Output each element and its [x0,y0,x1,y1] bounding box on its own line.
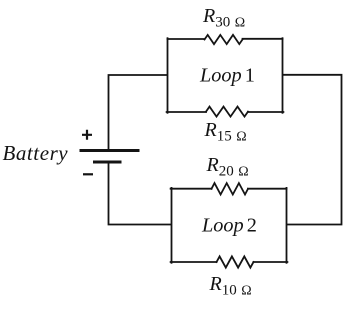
svg-text:R15Ω: R15Ω [204,119,247,145]
svg-text:Battery: Battery [3,141,69,165]
wire: Loop 2 top-left lead [171,188,212,190]
wire: Loop 2 bottom-left lead [171,261,217,263]
wire: Loop 1 left edge [167,38,169,113]
wire: Loop 2 right edge [286,188,288,263]
battery - polarity mark [83,173,93,175]
wire: battery + terminal up and right to Loop 1 left node [109,75,167,150]
wire: Loop 1 bottom-left lead [167,111,206,113]
wire: Loop 1 top-left lead [168,38,205,40]
wire: Loop 1 top-right lead [243,38,283,40]
svg-text:R30Ω: R30Ω [202,5,245,31]
battery + polarity mark [82,130,92,140]
resistor R4 (10 ohm) zigzag [217,256,254,267]
resistor R1 (30 ohm) zigzag [205,35,243,44]
battery B1 positive plate [80,149,140,152]
wire: battery - terminal down and right to Loop 2 left node [109,163,171,225]
wire: Loop 1 right node to outer right rail, down, to Loop 2 right node [283,75,341,225]
svg-text:Loop2: Loop2 [201,215,257,237]
wire: Loop 1 bottom-right lead [248,111,283,113]
svg-text:R10Ω: R10Ω [209,273,252,299]
wire: Loop 1 right edge [282,38,284,113]
wire: Loop 2 bottom-right lead [254,261,288,263]
svg-text:R20Ω: R20Ω [206,154,249,180]
battery B1 negative plate [93,161,122,164]
svg-text:Loop1: Loop1 [199,65,255,87]
wire: Loop 2 top-right lead [248,188,287,190]
wire: Loop 2 left edge [171,188,173,263]
resistor R2 (15 ohm) zigzag [206,107,248,117]
resistor R3 (20 ohm) zigzag [212,183,249,194]
